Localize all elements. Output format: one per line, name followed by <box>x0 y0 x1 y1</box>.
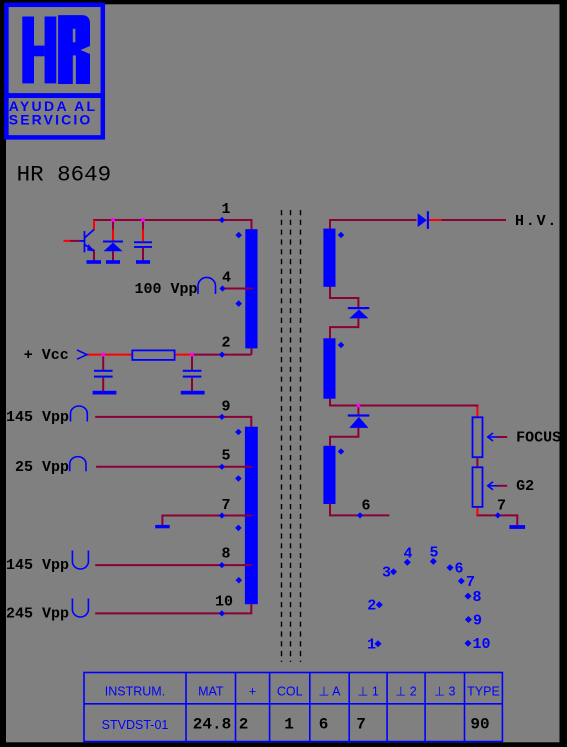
svg-text:2: 2 <box>367 598 376 615</box>
svg-text:5: 5 <box>221 448 230 465</box>
svg-text:2: 2 <box>239 716 249 734</box>
svg-text:7: 7 <box>356 716 366 734</box>
svg-text:+ Vcc: + Vcc <box>24 347 69 364</box>
svg-text:8: 8 <box>473 589 482 606</box>
svg-text:9: 9 <box>473 613 482 630</box>
svg-text:6: 6 <box>319 716 329 734</box>
svg-text:4: 4 <box>403 546 412 563</box>
svg-text:+: + <box>249 685 256 699</box>
svg-text:1: 1 <box>284 716 294 734</box>
svg-text:INSTRUM.: INSTRUM. <box>105 685 165 699</box>
svg-text:6: 6 <box>455 561 464 578</box>
svg-text:145 Vpp: 145 Vpp <box>6 409 69 426</box>
svg-text:7: 7 <box>221 497 230 514</box>
svg-text:9: 9 <box>221 398 230 415</box>
svg-text:90: 90 <box>470 716 489 734</box>
svg-text:1: 1 <box>367 637 376 654</box>
svg-text:6: 6 <box>361 498 370 515</box>
svg-text:10: 10 <box>215 594 233 611</box>
svg-text:4: 4 <box>222 270 231 287</box>
svg-text:10: 10 <box>473 636 491 653</box>
svg-text:245 Vpp: 245 Vpp <box>6 605 69 622</box>
svg-text:H.V.: H.V. <box>515 213 558 230</box>
svg-text:2: 2 <box>221 335 230 352</box>
svg-text:FOCUS: FOCUS <box>516 429 561 446</box>
svg-text:145 Vpp: 145 Vpp <box>6 557 69 574</box>
svg-text:MAT: MAT <box>198 685 224 699</box>
svg-text:3: 3 <box>382 565 391 582</box>
svg-text:5: 5 <box>429 545 438 562</box>
svg-text:⊥ 2: ⊥ 2 <box>395 685 416 699</box>
svg-text:24.8: 24.8 <box>193 716 231 734</box>
svg-text:G2: G2 <box>516 478 534 495</box>
svg-text:⊥ 1: ⊥ 1 <box>358 685 379 699</box>
svg-text:COL: COL <box>277 685 303 699</box>
svg-text:STVDST-01: STVDST-01 <box>102 718 169 732</box>
svg-text:7: 7 <box>497 498 506 515</box>
svg-text:TYPE: TYPE <box>467 685 500 699</box>
svg-text:⊥ A: ⊥ A <box>318 685 341 699</box>
svg-text:1: 1 <box>221 201 230 218</box>
svg-text:HR 8649: HR 8649 <box>17 162 112 188</box>
svg-text:25 Vpp: 25 Vpp <box>15 459 69 476</box>
svg-text:8: 8 <box>221 546 230 563</box>
svg-text:⊥ 3: ⊥ 3 <box>434 685 455 699</box>
svg-text:100 Vpp: 100 Vpp <box>135 281 198 298</box>
